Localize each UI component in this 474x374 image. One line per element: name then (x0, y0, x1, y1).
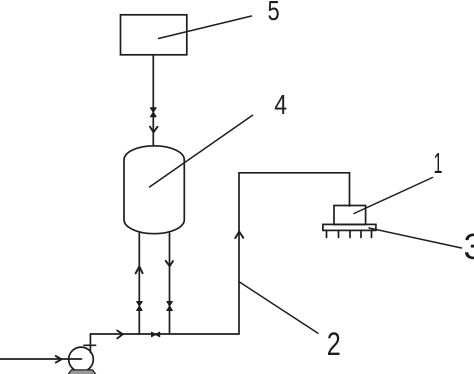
svg-text:3: 3 (464, 226, 474, 267)
svg-text:4: 4 (274, 89, 287, 120)
svg-text:1: 1 (434, 148, 443, 180)
svg-text:2: 2 (327, 326, 341, 362)
svg-text:5: 5 (268, 0, 280, 26)
